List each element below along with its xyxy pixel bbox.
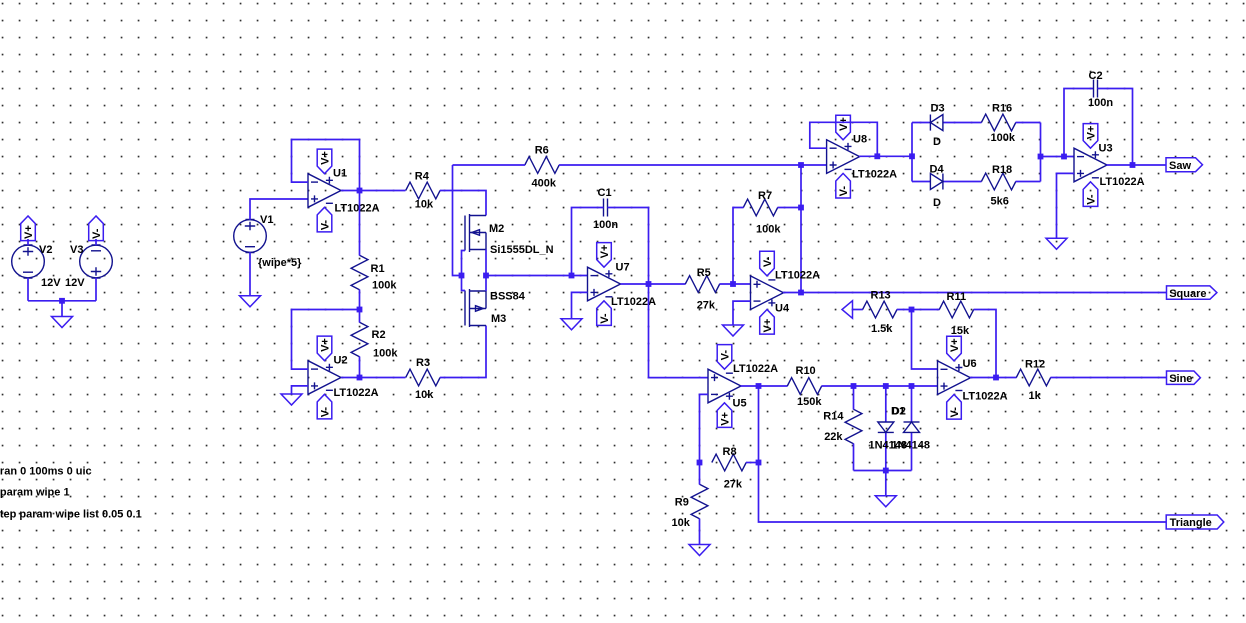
wire U3 output to Saw [1107,164,1167,166]
flag V+ below U4 [760,310,775,335]
flag V- below U3 [1083,182,1098,207]
svg-text:R6: R6 [535,144,549,156]
node diode bridge left junction [909,153,915,159]
resistor R3 [406,369,440,386]
wire D1 leads [885,386,887,471]
svg-text:V+: V+ [320,151,332,165]
capacitor C1 [604,199,608,217]
wire C1 right lead [608,208,649,285]
op-amp U3 [1074,148,1107,182]
svg-text:BSS84: BSS84 [490,291,526,303]
wire U3 noninverting input to ground [1057,173,1075,238]
svg-text:R3: R3 [416,357,430,369]
voltage source V3 [80,245,113,278]
node D1 top junction [883,383,889,389]
wire sources row to U7 inverting input [486,275,588,277]
svg-text:V+: V+ [762,319,774,333]
resistor R12 [1016,369,1050,386]
svg-text:V-: V- [91,228,103,239]
svg-text:LT1022A: LT1022A [733,363,778,375]
diode D4 [930,174,943,190]
svg-text:M3: M3 [491,313,506,325]
wire U1 output row [341,190,406,192]
ground U4 [723,325,744,336]
svg-text:V+: V+ [599,245,611,259]
op-amp U1 [308,174,341,208]
resistor R9 [691,484,708,518]
svg-text:Square: Square [1169,288,1206,300]
svg-text:22k: 22k [824,431,843,443]
svg-text:D4: D4 [930,164,945,176]
ground PSU [52,317,73,328]
node C1 left tap junction [569,273,575,279]
svg-text:10k: 10k [415,199,434,211]
wire R13 junction to U6 inverting input [912,310,938,370]
node C2 tap junction [1061,154,1067,160]
svg-text:V-: V- [762,256,774,267]
wire C2 right lead [1098,89,1133,166]
ground U7 [561,319,582,330]
flag Triangle output port [1166,515,1224,529]
op-amp U8 [827,140,860,174]
wire R1 leads [359,191,361,310]
svg-text:LT1022A: LT1022A [852,169,897,181]
svg-text:V-: V- [1086,194,1098,205]
wire R13 right lead [897,309,940,311]
flag V+ above U2 [317,336,332,361]
svg-text:U6: U6 [963,358,977,370]
wire diode bottom branch [912,181,982,183]
wire diode top branch [912,122,982,124]
wire bridge to U3 inverting input [1041,156,1075,158]
capacitor C2 [1094,80,1098,98]
diode D2 (1N4148 up) [904,422,920,432]
wire R6 tap down to gates [453,165,462,276]
svg-text:U4: U4 [775,303,790,315]
voltage source V2 [12,245,45,278]
svg-text:R12: R12 [1025,358,1045,370]
flag V+ above U1 [317,149,332,174]
ground V1 [240,296,261,307]
flag V+ above V2 [21,216,36,241]
svg-text:V-: V- [720,350,732,361]
svg-text:100k: 100k [372,280,397,292]
op-amp U2 [308,361,341,395]
svg-text:400k: 400k [532,177,557,189]
svg-text:U2: U2 [334,355,348,367]
diode D3 [930,115,943,131]
resistor R7 [743,199,777,216]
resistor R14 [845,409,862,443]
wire V1 top to U1 noninverting input [250,199,308,220]
wire U4 inverting input to ground [733,301,751,325]
svg-text:R8: R8 [723,446,737,458]
wire D2 leads [911,386,913,471]
svg-text:.param wipe 1: .param wipe 1 [0,486,70,498]
svg-text:Saw: Saw [1169,160,1191,172]
node R14 top junction [851,383,857,389]
flag V- below U6 [947,395,962,420]
transistor M2 (NMOS Si1555DL_N) [465,214,486,252]
svg-text:.step param wipe list 0.05 0.1: .step param wipe list 0.05 0.1 [0,508,142,520]
svg-text:D3: D3 [931,103,945,115]
wire V2 flag to circle [27,239,29,245]
node R5 R7 junction [730,281,736,287]
wire R16 right lead [1016,122,1041,124]
flag Sine output port [1167,371,1201,384]
svg-text:V+: V+ [720,412,732,426]
node diode bottom junction [883,468,889,474]
svg-text:V+: V+ [23,225,35,239]
svg-text:Si1555DL_N: Si1555DL_N [490,244,554,256]
svg-text:V+: V+ [320,338,332,352]
svg-text:150k: 150k [797,396,822,408]
wire R5 right lead to U4 [720,283,751,285]
wire U5 output down to Triangle [759,386,1167,522]
svg-text:27k: 27k [697,300,716,312]
wire U1 feedback loop [292,140,360,191]
svg-text:LT1022A: LT1022A [963,391,1008,403]
wire U6 output row [970,377,1017,379]
svg-text:100k: 100k [373,348,398,360]
wire U8 output [859,155,912,157]
resistor R8 [712,454,746,471]
node D2 top junction [909,383,915,389]
svg-text:R7: R7 [758,190,772,202]
wire R13 left lead [853,309,863,311]
wire U2 feedback loop [292,310,360,370]
svg-text:R13: R13 [871,290,891,302]
svg-text:R5: R5 [697,267,711,279]
wire R6 left lead [453,164,526,166]
node gates junction [459,273,465,279]
svg-text:C1: C1 [598,187,612,199]
svg-text:R2: R2 [372,329,386,341]
svg-text:R16: R16 [992,102,1012,114]
resistor R2 [351,322,368,356]
svg-text:V2: V2 [39,244,52,256]
flag V- below U7 [597,301,612,326]
transistor M3 (PMOS BSS84) [465,289,486,327]
flag V- above U4 [760,251,775,276]
resistor R6 [525,157,559,174]
flag V+ above U3 [1083,124,1098,149]
svg-text:U5: U5 [733,398,747,410]
wire U2 output row [341,377,406,379]
svg-text:LT1022A: LT1022A [334,387,379,399]
wire R6 right lead to U8 noninverting input [559,164,827,166]
wire V2 bottom [27,278,29,301]
node U8 feedback junction [874,153,880,159]
wire V1 bottom to ground [249,252,251,295]
resistor R16 [981,114,1015,131]
node R8 right junction [756,460,762,466]
svg-text:Sine: Sine [1169,373,1192,385]
svg-text:D: D [933,197,941,209]
ground diodes [875,496,896,507]
svg-text:100k: 100k [756,224,781,236]
flag Saw output port [1166,158,1203,172]
resistor R11 [939,301,973,318]
flag V- below U1 [317,207,332,232]
svg-text:R1: R1 [371,263,385,275]
svg-text:{wipe*5}: {wipe*5} [258,257,302,269]
svg-text:LT1022A: LT1022A [775,270,820,282]
svg-text:V+: V+ [949,338,961,352]
svg-text:V+: V+ [838,117,850,131]
node U6 output junction [993,375,999,381]
wire PSU ground bus [28,301,96,317]
node R1 bottom junction [357,307,363,313]
wire U5 output row [741,385,788,387]
wire R12 to Sine flag [1051,377,1167,379]
node U1 output junction [357,188,363,194]
wire V3 flag to circle [95,239,97,245]
wire R10 right lead to U6 noninverting input [822,385,938,387]
svg-text:M2: M2 [489,223,504,235]
wire diode bottom row [854,471,912,496]
wire R9 leads [699,463,701,545]
op-amp U6 [938,361,971,395]
flag V- above V3 [89,216,104,241]
svg-text:D2: D2 [892,406,906,418]
node U2 output junction [357,375,363,381]
wire C2 left lead [1064,89,1094,157]
resistor R10 [787,378,821,395]
wire U7 output to U5 noninverting input [649,284,709,378]
svg-text:LT1022A: LT1022A [335,203,380,215]
node PSU ground junction [59,298,65,304]
flag V- above U5 [717,345,732,370]
svg-text:100n: 100n [1088,97,1113,109]
svg-text:V+: V+ [1086,126,1098,140]
svg-text:R4: R4 [415,171,430,183]
svg-text:C2: C2 [1089,70,1103,82]
wire vertical R6 to U4 output [800,165,802,293]
voltage source V1 [234,219,267,252]
flag V- below U2 [317,394,332,419]
wire U4 output [783,292,1167,294]
svg-text:10k: 10k [672,517,691,529]
wire U5 inverting input to R8 [700,394,709,462]
svg-text:R9: R9 [675,496,689,508]
wire R14 leads [853,386,855,471]
node sources junction [483,273,489,279]
op-amp U5 (mirrored) [708,369,741,403]
wire V3 bottom [95,278,97,301]
svg-text:1k: 1k [1029,390,1042,402]
svg-text:V-: V- [320,220,332,231]
wire R3 to M3 drain [440,326,486,378]
node R8 left junction [697,460,703,466]
svg-text:27k: 27k [724,479,743,491]
flag V+ below U5 [717,403,732,428]
svg-text:V-: V- [599,313,611,324]
svg-text:5k6: 5k6 [991,195,1009,207]
svg-text:Triangle: Triangle [1170,517,1212,529]
op-amp U7 [588,267,621,301]
svg-text:1N4148: 1N4148 [892,440,931,452]
flag V+ above U6 [947,336,962,361]
node U7 output junction [646,281,652,287]
wire diode bridge right rail [1040,123,1042,182]
port arrow at R13 [842,301,853,319]
wire R7 left lead [733,208,744,285]
node U3 output junction [1130,162,1136,168]
svg-text:10k: 10k [415,389,434,401]
resistor R5 [685,276,719,293]
wire U2 noninverting input to ground [292,386,309,394]
svg-text:100k: 100k [991,132,1016,144]
ground U3 [1046,238,1067,249]
wire C1 left lead [572,208,604,276]
node R7 junction [798,205,804,211]
flag Square output port [1167,286,1217,299]
flag V+ above U8 [836,115,851,140]
svg-text:R14: R14 [823,411,844,423]
svg-text:V1: V1 [260,214,273,226]
wire R8 right lead [746,462,759,464]
svg-text:U1: U1 [333,168,347,180]
resistor R13 [863,301,897,318]
svg-text:V3: V3 [70,244,83,256]
wire R4 to M2 drain [440,191,486,216]
svg-text:15k: 15k [951,325,970,337]
resistor R1 [351,255,368,289]
node R13 R11 junction [909,307,915,313]
wire gate rail M2 M3 [462,251,466,291]
svg-text:.tran 0 100ms 0 uic: .tran 0 100ms 0 uic [0,465,92,477]
wire U7 noninverting input to ground [572,292,588,318]
svg-text:U7: U7 [616,261,630,273]
wire diode bridge left rail [911,123,913,182]
wire R2 leads [359,310,361,378]
diode D1 (1N4148 down) [878,422,894,432]
svg-text:100n: 100n [593,219,618,231]
svg-text:12V: 12V [41,277,61,289]
svg-text:1.5k: 1.5k [871,323,893,335]
node bridge right junction [1038,154,1044,160]
svg-text:U8: U8 [853,134,867,146]
svg-text:V-: V- [320,407,332,418]
node U4 output junction [798,290,804,296]
wire U8 feedback loop [810,122,878,156]
ground U2 [281,394,302,405]
node U5 output junction [756,383,762,389]
flag V- below U8 [836,173,851,198]
svg-text:R18: R18 [992,164,1012,176]
resistor R4 [406,182,440,199]
wire MOSFET sources tie [485,250,487,292]
wire R7 right lead [778,207,802,209]
wire U7 output row [621,283,686,285]
svg-text:D: D [933,136,941,148]
svg-text:V-: V- [949,407,961,418]
flag V+ above U7 [597,243,612,268]
wire R11 right lead down to U6 output [974,310,997,378]
resistor R18 [981,173,1015,190]
svg-text:12V: 12V [65,277,85,289]
svg-text:U3: U3 [1099,143,1113,155]
ground R9 [689,545,710,556]
op-amp U4 (mirrored) [751,276,784,310]
node R6 U8 junction [798,162,804,168]
svg-text:V-: V- [838,186,850,197]
svg-text:R10: R10 [796,365,816,377]
svg-text:LT1022A: LT1022A [1100,176,1145,188]
svg-text:R11: R11 [947,291,967,303]
wire R18 right lead [1016,181,1041,183]
